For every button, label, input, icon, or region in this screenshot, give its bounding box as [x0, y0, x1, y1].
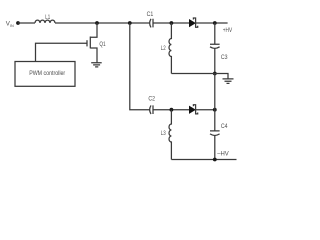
node dot -HV: [213, 158, 217, 162]
diode D2 (schottky): [189, 106, 195, 113]
wire C3 to ground node: [214, 49, 216, 74]
transistor Q1 channel bar: [89, 37, 91, 49]
node dot Q1 drain on rail: [95, 21, 99, 25]
inductor L2: [169, 23, 171, 74]
svg-text:+HV: +HV: [223, 27, 233, 34]
capacitor C4: [210, 131, 220, 160]
capacitor C2: [150, 105, 153, 114]
wire D2 to node: [196, 109, 215, 111]
svg-text:PWM controller: PWM controller: [29, 70, 65, 77]
wire bottom rail: [171, 159, 236, 161]
wire D2 node down to C4: [214, 110, 216, 131]
svg-text:L1: L1: [45, 14, 50, 21]
wire +HV node down to C3: [214, 23, 216, 44]
transistor Q1 drain lead: [90, 23, 97, 37]
PWM controller box: [15, 62, 75, 87]
svg-text:C4: C4: [221, 123, 228, 130]
transistor Q1 source lead: [90, 48, 97, 63]
svg-text:L3: L3: [161, 130, 166, 137]
svg-text:–HV: –HV: [217, 150, 229, 157]
node dot C3 bottom: [213, 72, 217, 76]
node dot D2 out: [213, 108, 217, 112]
capacitor C1: [150, 19, 153, 28]
svg-text:C2: C2: [148, 96, 155, 103]
transistor Q1 gate bar: [86, 40, 88, 46]
svg-text:C3: C3: [221, 54, 228, 61]
diode D1 cathode bar: [193, 18, 197, 27]
wire ground node down to D2 node: [214, 74, 216, 110]
wire branch vertical left: [130, 23, 150, 110]
wire gate to PWM controller: [36, 43, 87, 61]
node dot branch on rail: [128, 21, 132, 25]
ground under Q1: [91, 63, 102, 67]
diode D1 (schottky): [189, 20, 195, 27]
svg-text:L2: L2: [161, 45, 166, 52]
node VIN terminal dot: [16, 21, 20, 25]
node dot L3 top: [170, 108, 174, 112]
node dot L2 top: [170, 21, 174, 25]
svg-text:C1: C1: [147, 11, 154, 18]
svg-text:Q1: Q1: [99, 41, 106, 48]
diode D2 cathode bar: [193, 105, 197, 114]
capacitor C3: [210, 44, 220, 48]
svg-text:VIN: VIN: [6, 21, 14, 28]
wire L1 to C1: [55, 22, 150, 24]
wire C1 to diode D1: [153, 22, 189, 24]
wire node to right ground: [215, 74, 228, 79]
wire C2 to diode D2: [153, 109, 189, 111]
wire VIN to L1: [18, 22, 35, 24]
node dot +HV: [213, 21, 217, 25]
inductor L3: [169, 110, 171, 160]
wire D1 to +HV: [196, 22, 228, 24]
ground right: [223, 79, 234, 84]
wire L2 bottom to node: [171, 73, 214, 75]
inductor L1: [35, 20, 55, 23]
